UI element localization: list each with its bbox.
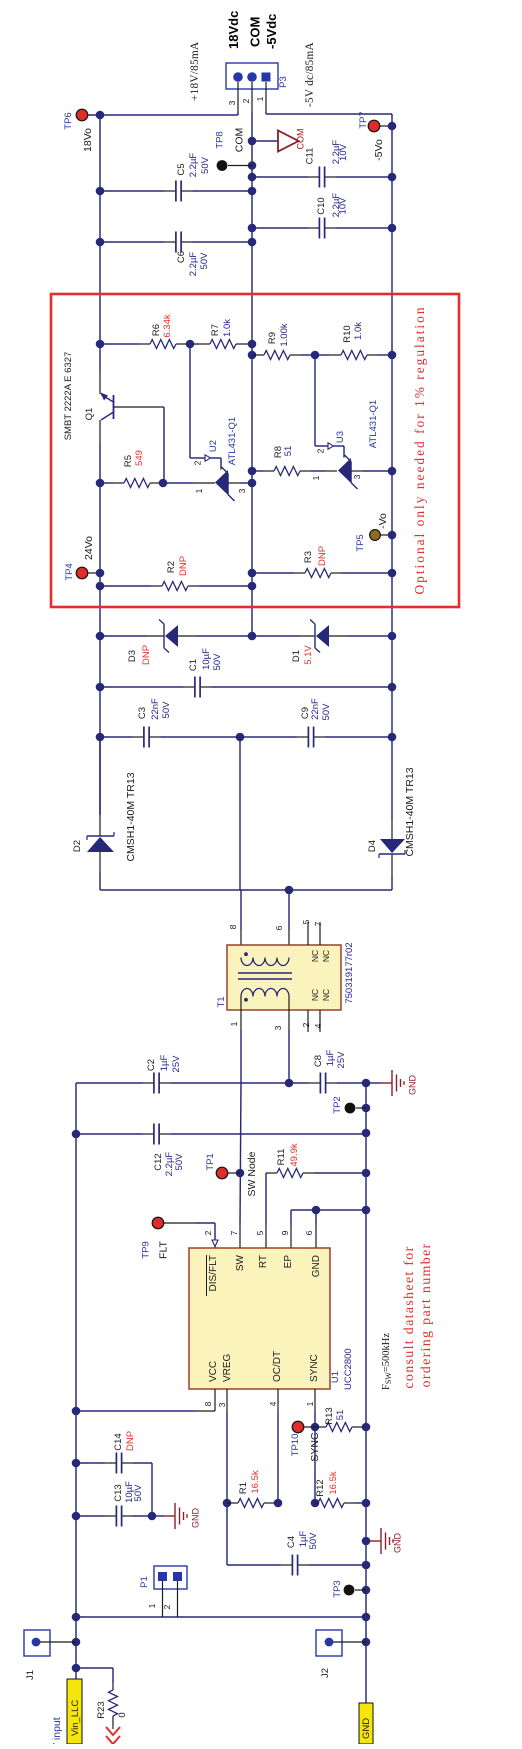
svg-text:C14: C14 <box>113 1433 124 1450</box>
svg-text:9: 9 <box>280 1230 290 1235</box>
svg-text:1: 1 <box>305 1401 315 1406</box>
svg-text:TP5: TP5 <box>355 534 366 551</box>
P3 pin number 2 <box>241 98 251 103</box>
capacitor C1 <box>100 648 392 698</box>
wire SW node (T1 pin1 to U1 pin7) <box>236 1030 245 1248</box>
svg-text:3: 3 <box>273 1025 283 1030</box>
svg-text:consult datasheet for: consult datasheet for <box>402 1245 417 1388</box>
svg-text:FSW=500kHz: FSW=500kHz <box>381 1333 393 1390</box>
svg-text:50V: 50V <box>174 1153 185 1171</box>
capacitor C9 <box>236 698 392 748</box>
svg-text:ATL431-Q1: ATL431-Q1 <box>227 417 238 465</box>
svg-text:50V: 50V <box>321 703 332 721</box>
svg-text:GND: GND <box>408 1075 418 1096</box>
zener diode D1 5.1V <box>252 620 392 665</box>
resistor R7 <box>186 319 252 349</box>
svg-text:Vin_LLC: Vin_LLC <box>70 1700 81 1736</box>
svg-text:OC/DT: OC/DT <box>272 1351 283 1382</box>
svg-text:D3: D3 <box>127 650 138 662</box>
resistor R13 <box>315 1407 366 1431</box>
svg-text:U2: U2 <box>208 440 219 452</box>
test point TP5 <box>355 513 389 552</box>
capacitor C13 <box>76 1481 164 1527</box>
svg-text:1: 1 <box>194 488 204 493</box>
resistor R3 (DNP) <box>252 546 392 578</box>
svg-text:TP2: TP2 <box>332 1096 343 1113</box>
svg-text:EP: EP <box>283 1255 294 1269</box>
svg-text:C1: C1 <box>188 659 199 671</box>
resistor R12 <box>315 1471 366 1507</box>
svg-text:2: 2 <box>203 1230 213 1235</box>
svg-text:6.34k: 6.34k <box>162 314 173 337</box>
resistor R23 <box>76 1668 128 1729</box>
svg-text:+18V/85mA: +18V/85mA <box>189 42 201 101</box>
diode D3 (DNP) <box>100 620 252 666</box>
capacitor C12 <box>76 1124 366 1177</box>
svg-text:750319177r02: 750319177r02 <box>344 942 355 1003</box>
svg-text:16.5k: 16.5k <box>328 1471 339 1494</box>
off-page connector chevron <box>106 1727 120 1744</box>
resistor R2 (DNP) <box>100 556 252 591</box>
wire COM net (P3 pin2 rail) <box>248 112 278 640</box>
svg-text:R9: R9 <box>267 332 278 344</box>
wire -5V net (P3 pin1 to right rail) <box>266 112 396 820</box>
svg-text:3: 3 <box>237 488 247 493</box>
net label GND (yellow) <box>359 1703 373 1744</box>
wire secondary winding node (D2 anode / D4 cathode to T1 pin6) <box>100 852 392 958</box>
connector P1 <box>139 1566 187 1617</box>
svg-text:DNP: DNP <box>317 546 328 566</box>
net label -5Vdc <box>264 14 279 49</box>
svg-text:C11: C11 <box>305 148 316 165</box>
svg-text:C4: C4 <box>286 1536 297 1548</box>
svg-text:GND: GND <box>361 1718 372 1739</box>
annotation consult datasheet for ordering part number <box>402 1243 434 1389</box>
svg-text:50V: 50V <box>199 252 210 270</box>
net label 18Vdc <box>226 11 241 49</box>
resistor R10 <box>315 322 392 360</box>
svg-text:10V: 10V <box>338 143 349 161</box>
svg-text:COM: COM <box>296 129 306 150</box>
svg-text:T1: T1 <box>216 996 227 1007</box>
resistor R6 <box>100 314 190 348</box>
svg-text:22nF: 22nF <box>150 698 161 720</box>
test point TP8 <box>215 128 253 171</box>
svg-text:DNP: DNP <box>178 556 189 576</box>
test point TP6 <box>63 109 94 152</box>
svg-text:1: 1 <box>147 1603 157 1608</box>
svg-text:TP9: TP9 <box>141 1241 152 1258</box>
svg-text:C6: C6 <box>176 251 187 263</box>
svg-text:1µF: 1µF <box>325 1050 336 1067</box>
svg-text:24Vo: 24Vo <box>83 536 95 560</box>
capacitor C2 <box>76 1055 289 1094</box>
svg-text:10µF: 10µF <box>201 648 212 670</box>
svg-text:8: 8 <box>203 1401 213 1406</box>
svg-text:D2: D2 <box>72 840 83 852</box>
COM power symbol <box>278 129 306 152</box>
svg-text:2: 2 <box>241 98 251 103</box>
schottky diode D2 <box>72 737 137 862</box>
wire VREG pin3 <box>223 1389 232 1565</box>
svg-text:25V: 25V <box>336 1051 347 1069</box>
svg-text:U1: U1 <box>330 1371 341 1383</box>
svg-text:2: 2 <box>162 1604 172 1609</box>
svg-text:2: 2 <box>316 448 326 453</box>
svg-text:D1: D1 <box>291 650 302 662</box>
svg-text:1: 1 <box>255 96 265 101</box>
annotation Optional only needed for 1% regulation <box>412 305 427 594</box>
wire T1 pin8 to C3/C9 node <box>240 737 241 958</box>
svg-text:1.0k: 1.0k <box>222 319 233 337</box>
wire 24V net (left rail below Q1) <box>88 442 104 815</box>
transformer T1 <box>216 919 355 1032</box>
svg-text:1.0k: 1.0k <box>353 322 364 340</box>
svg-text:R23: R23 <box>96 1701 107 1718</box>
svg-text:UCC2800: UCC2800 <box>343 1348 354 1390</box>
svg-text:VCC: VCC <box>208 1361 219 1382</box>
svg-text:10V: 10V <box>338 197 349 215</box>
svg-text:TP4: TP4 <box>64 563 75 580</box>
test point TP2 <box>332 1096 366 1113</box>
resistor R8 <box>252 446 337 476</box>
svg-text:7: 7 <box>229 1230 239 1235</box>
resistor R5 <box>100 450 167 487</box>
capacitor C5 <box>100 153 252 202</box>
svg-text:25V: 25V <box>171 1055 182 1073</box>
svg-text:-5V dc/85mA: -5V dc/85mA <box>304 42 316 107</box>
svg-text:50V: 50V <box>161 701 172 719</box>
wire input rail Vin <box>72 1083 81 1679</box>
svg-text:GND: GND <box>191 1508 201 1529</box>
svg-text:18Vo: 18Vo <box>82 128 94 152</box>
svg-text:51: 51 <box>283 446 294 457</box>
net label Vin_LLC <box>67 1679 82 1744</box>
svg-text:5.1V: 5.1V <box>303 645 314 665</box>
svg-text:49.9k: 49.9k <box>289 1143 300 1166</box>
IC U1 UCC2800 <box>189 1230 354 1407</box>
svg-text:4: 4 <box>268 1401 278 1406</box>
svg-text:2.2µF: 2.2µF <box>188 252 199 277</box>
svg-text:C12: C12 <box>153 1153 164 1170</box>
svg-text:8: 8 <box>228 924 238 929</box>
svg-text:TP3: TP3 <box>332 1580 343 1597</box>
svg-text:22nF: 22nF <box>310 698 321 720</box>
svg-text:CMSH1-40M TR13: CMSH1-40M TR13 <box>404 767 416 856</box>
svg-text:0: 0 <box>117 1712 128 1717</box>
wire EP/GND pins to ground rail <box>291 1206 366 1248</box>
svg-text:R5: R5 <box>123 455 134 467</box>
svg-text:16.5k: 16.5k <box>250 1470 261 1493</box>
transistor Q1 SMBT2222A <box>63 352 164 483</box>
svg-text:NC: NC <box>321 989 331 1001</box>
svg-text:1: 1 <box>311 475 321 480</box>
svg-text:TP6: TP6 <box>63 112 74 129</box>
svg-text:2.2µF: 2.2µF <box>188 153 199 178</box>
svg-text:R13: R13 <box>324 1407 335 1424</box>
wire T1 pin3 node <box>285 1030 294 1087</box>
svg-text:7: 7 <box>313 921 323 926</box>
wire GND rail <box>362 1079 371 1703</box>
svg-text:2: 2 <box>193 460 203 465</box>
DIS/FLT input marker <box>203 1230 218 1248</box>
svg-text:R7: R7 <box>210 324 221 336</box>
test point TP1 <box>205 1151 258 1196</box>
svg-text:-Vo: -Vo <box>377 513 389 529</box>
capacitor C6 <box>100 232 252 277</box>
svg-text:TP7: TP7 <box>358 111 369 128</box>
svg-text:ATL431-Q1: ATL431-Q1 <box>368 400 379 448</box>
annotation V input <box>51 1717 63 1749</box>
svg-text:R11: R11 <box>276 1149 287 1166</box>
net label COM (bold) <box>248 17 263 47</box>
test point TP3 <box>332 1580 366 1597</box>
shunt regulator U3 ATL431 <box>311 355 392 489</box>
svg-text:6: 6 <box>274 925 284 930</box>
svg-text:5: 5 <box>301 919 311 924</box>
svg-text:P3: P3 <box>278 76 289 88</box>
svg-text:J1: J1 <box>25 1670 36 1680</box>
svg-text:VREG: VREG <box>222 1353 233 1382</box>
svg-text:C3: C3 <box>137 707 148 719</box>
svg-text:U3: U3 <box>335 431 346 443</box>
svg-text:RT: RT <box>258 1255 269 1268</box>
test point TP10 <box>290 1421 321 1461</box>
svg-text:-5Vdc: -5Vdc <box>264 14 279 49</box>
test point TP7 <box>358 111 385 161</box>
svg-text:-5Vo: -5Vo <box>373 139 385 161</box>
schottky diode D4 <box>367 767 416 858</box>
svg-text:SYNC: SYNC <box>309 1354 320 1382</box>
svg-text:R2: R2 <box>166 561 177 573</box>
svg-text:R10: R10 <box>342 325 353 342</box>
capacitor C11 <box>252 140 392 188</box>
svg-text:TP8: TP8 <box>215 131 226 148</box>
svg-text:18Vdc: 18Vdc <box>226 11 241 49</box>
svg-text:COM: COM <box>234 128 246 153</box>
capacitor C10 <box>252 193 392 239</box>
svg-text:4: 4 <box>313 1023 323 1028</box>
P3 pin number 3 <box>227 100 237 105</box>
svg-text:SYNC: SYNC <box>309 1432 321 1462</box>
svg-text:3: 3 <box>227 100 237 105</box>
test point TP9 <box>141 1217 216 1259</box>
ground symbol at C13 <box>164 1503 201 1529</box>
wire 18V net (TP6 to P3 pin3 and left rail) <box>88 111 238 372</box>
test point TP4 <box>64 536 95 581</box>
svg-text:COM: COM <box>248 17 263 47</box>
svg-text:1.00k: 1.00k <box>279 323 290 346</box>
connector P3 <box>226 63 289 112</box>
svg-text:V input: V input <box>51 1717 63 1744</box>
svg-text:SW: SW <box>235 1254 246 1271</box>
wire SYNC pin1 <box>311 1389 320 1507</box>
svg-text:3: 3 <box>352 474 362 479</box>
svg-text:1: 1 <box>229 1021 239 1026</box>
svg-text:C5: C5 <box>176 163 187 175</box>
svg-text:C8: C8 <box>313 1055 324 1067</box>
svg-text:DIS/FLT: DIS/FLT <box>208 1255 219 1291</box>
annotation -5Vdc/85mA <box>304 42 316 107</box>
ground symbol at rail Y1541 <box>366 1528 403 1554</box>
svg-text:5: 5 <box>255 1230 265 1235</box>
ground symbol at C8 <box>366 1070 418 1096</box>
svg-text:C10: C10 <box>316 197 327 214</box>
svg-text:J2: J2 <box>320 1668 331 1678</box>
wire VCC pin8 to input rail <box>76 1389 215 1411</box>
resistor R9 <box>252 323 319 359</box>
svg-text:3: 3 <box>217 1402 227 1407</box>
resistor R11 <box>266 1143 366 1248</box>
svg-text:FLT: FLT <box>158 1240 170 1258</box>
svg-text:C13: C13 <box>113 1484 124 1501</box>
annotation +18V/85mA <box>189 42 201 101</box>
svg-text:Optional only needed for 1%: Optional only needed for 1% regulation <box>412 305 427 594</box>
shunt regulator U2 ATL431 <box>163 344 252 501</box>
capacitor C8 <box>289 1050 366 1094</box>
svg-text:ordering part number: ordering part number <box>419 1243 434 1388</box>
capacitor C14 (DNP) <box>76 1431 152 1516</box>
svg-text:SW Node: SW Node <box>246 1151 258 1196</box>
svg-text:TP1: TP1 <box>205 1153 216 1170</box>
svg-text:50V: 50V <box>200 156 211 174</box>
svg-text:50V: 50V <box>133 1484 144 1502</box>
svg-text:549: 549 <box>134 450 145 466</box>
svg-text:2: 2 <box>301 1022 311 1027</box>
capacitor C4 <box>227 1531 366 1576</box>
svg-text:DNP: DNP <box>141 645 152 665</box>
svg-text:6: 6 <box>304 1230 314 1235</box>
svg-text:50V: 50V <box>212 653 223 671</box>
svg-text:51: 51 <box>335 1410 346 1421</box>
svg-text:C2: C2 <box>146 1059 157 1071</box>
svg-text:DNP: DNP <box>125 1431 136 1451</box>
svg-text:GND: GND <box>311 1255 322 1277</box>
svg-text:P1: P1 <box>139 1576 150 1588</box>
P3 pin number 1 <box>255 96 265 101</box>
svg-text:CMSH1-40M TR13: CMSH1-40M TR13 <box>125 772 137 861</box>
svg-text:1µF: 1µF <box>159 1055 170 1072</box>
annotation Fsw=500kHz <box>381 1333 393 1390</box>
svg-text:TP10: TP10 <box>290 1434 301 1457</box>
wire bottom row P1 to GND rail <box>76 1616 366 1618</box>
svg-text:NC: NC <box>310 989 320 1001</box>
wire OC/DT pin4 <box>274 1389 283 1507</box>
optional-regulation red outline box <box>51 294 459 607</box>
connector J2 <box>316 1630 366 1678</box>
svg-text:Q1: Q1 <box>84 408 95 421</box>
svg-text:50V: 50V <box>308 1532 319 1550</box>
resistor R1 <box>227 1470 278 1507</box>
connector J1 <box>24 1630 76 1680</box>
svg-text:NC: NC <box>310 950 320 962</box>
capacitor C3 <box>100 698 240 748</box>
svg-text:NC: NC <box>321 950 331 962</box>
svg-text:R1: R1 <box>238 1482 249 1494</box>
svg-text:R3: R3 <box>303 551 314 563</box>
svg-text:R12: R12 <box>315 1479 326 1496</box>
svg-text:R6: R6 <box>151 324 162 336</box>
svg-text:GND: GND <box>393 1533 403 1554</box>
svg-text:D4: D4 <box>367 840 378 852</box>
svg-text:SMBT 2222A E 6327: SMBT 2222A E 6327 <box>63 352 74 441</box>
